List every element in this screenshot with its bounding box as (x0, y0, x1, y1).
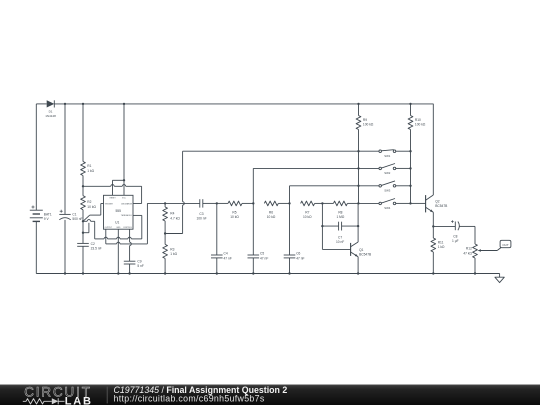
svg-text:R10: R10 (415, 118, 421, 122)
node C1 bottom (64, 272, 66, 274)
svg-text:DISCHARGE: DISCHARGE (121, 202, 132, 205)
node R11 bottom (432, 272, 434, 274)
wire battery negative lead (35, 221, 37, 273)
svg-text:23.5 nF: 23.5 nF (91, 246, 102, 250)
svg-text:THRESHOLD: THRESHOLD (121, 215, 133, 217)
resistor R4 4.7 kOhm (163, 203, 181, 233)
node Q1 collector junction (357, 202, 359, 204)
resistor R5 10 kOhm (217, 201, 254, 219)
op-amp U1 555 timer (104, 195, 134, 229)
svg-text:LAB: LAB (65, 396, 93, 405)
capacitor C9 5 nF (124, 260, 144, 274)
svg-text:C9: C9 (137, 260, 141, 264)
svg-text:CONTROL: CONTROL (123, 227, 132, 229)
svg-text:4.7 kΩ: 4.7 kΩ (170, 216, 180, 220)
switch SW4 (379, 199, 396, 211)
svg-text:5 nF: 5 nF (137, 264, 144, 268)
node C2 tap (82, 232, 84, 234)
node C7 left (321, 225, 323, 227)
wire bottom ground rail (36, 273, 499, 275)
capacitor C3 100 nF (196, 199, 216, 220)
footer title text (114, 385, 288, 404)
node C6 bottom (288, 272, 290, 274)
wire Q1 emitter (357, 257, 359, 274)
node R10 supply tap (409, 103, 411, 105)
wire R1-R2 junction to 555 DISCHARGE (83, 185, 142, 204)
node C4 top (216, 202, 218, 204)
wire battery positive lead (35, 104, 37, 210)
svg-text:http://circuitlab.com/c69nh5uf: http://circuitlab.com/c69nh5ufw5b7s (114, 394, 265, 404)
svg-text:R5: R5 (232, 210, 236, 214)
node R10 column SW3 (409, 185, 411, 187)
capacitor C6 47 nF (284, 203, 305, 273)
node R9 column SW1 (357, 150, 359, 152)
wire Q2 emitter (432, 212, 434, 226)
footer separator (106, 387, 108, 404)
wire Q1 collector (357, 203, 359, 242)
svg-text:100 nF: 100 nF (196, 217, 206, 221)
svg-text:C2: C2 (91, 242, 95, 246)
svg-text:C7: C7 (338, 236, 342, 240)
transistor Q1 BC547B (351, 242, 372, 257)
capacitor C1 500 nF (59, 104, 82, 274)
capacitor C4 47 nF (211, 203, 232, 273)
wire 555 GND to rail (117, 229, 119, 273)
node Q2 emitter (432, 225, 434, 227)
svg-text:R11: R11 (438, 241, 444, 245)
wire C2 tap jog (83, 223, 89, 233)
node R12 bottom (474, 272, 476, 274)
svg-text:BC547B: BC547B (359, 252, 371, 256)
svg-text:SW2: SW2 (384, 171, 391, 175)
node R10 column SW1 (409, 150, 411, 152)
svg-text:10 kΩ: 10 kΩ (303, 215, 312, 219)
wire SW4 right (396, 202, 411, 204)
node VCC-RESET tie (123, 179, 125, 181)
resistor R10 100 kOhm (408, 104, 426, 203)
potentiometer R12 47 kOhm (463, 226, 501, 273)
node R3 bottom (164, 272, 166, 274)
svg-text:1 kΩ: 1 kΩ (87, 169, 94, 173)
node Q1 emitter at rail (357, 272, 359, 274)
resistor R7 10 kOhm (301, 201, 323, 219)
svg-text:1 MΩ: 1 MΩ (336, 215, 344, 219)
wire SW2 right (396, 167, 411, 169)
svg-text:R9: R9 (363, 118, 367, 122)
svg-text:R4: R4 (170, 212, 174, 216)
node C5 top (252, 202, 254, 204)
svg-text:C3: C3 (199, 212, 203, 216)
svg-text:C1: C1 (72, 213, 76, 217)
svg-text:10 kΩ: 10 kΩ (230, 215, 239, 219)
node 555 GND at rail (117, 272, 119, 274)
resistor R1 1 kOhm (81, 104, 95, 186)
svg-text:100 kΩ: 100 kΩ (415, 123, 426, 127)
svg-text:C5: C5 (260, 252, 264, 256)
resistor R6 10 kOhm (264, 201, 289, 219)
svg-text:R2: R2 (87, 200, 91, 204)
svg-text:SW3: SW3 (384, 189, 391, 193)
wire supply to 555 VCC (123, 104, 125, 195)
node C5 bottom (252, 272, 254, 274)
svg-text:1 kΩ: 1 kΩ (438, 245, 445, 249)
svg-text:SW1: SW1 (384, 154, 391, 158)
wire C5 tap to SW2 (253, 168, 379, 203)
svg-text:U1: U1 (115, 220, 119, 224)
svg-text:1 µF: 1 µF (452, 239, 459, 243)
node R9 supply tap (357, 103, 359, 105)
svg-text:R7: R7 (305, 210, 309, 214)
svg-text:SW4: SW4 (384, 206, 391, 210)
svg-text:C8: C8 (453, 235, 457, 239)
svg-text:Q1: Q1 (359, 248, 364, 252)
footer CircuitLab logo (23, 385, 93, 405)
wire 555 OUTPUT to chain (106, 203, 148, 244)
wire Q1 base column (322, 203, 350, 249)
node trigger junction (82, 220, 84, 222)
resistor R8 1 MOhm (322, 201, 358, 219)
wire Q2 collector to rail (432, 104, 434, 195)
battery BAT1 9V (30, 206, 52, 222)
wire chain from output riser to C3 (147, 202, 199, 204)
svg-text:BAT1: BAT1 (44, 212, 52, 216)
node C7 right (357, 225, 359, 227)
wire SW4 left (358, 202, 379, 204)
svg-text:1N4148: 1N4148 (45, 114, 56, 118)
wire divider tap to SW1 (165, 151, 379, 233)
capacitor C7 10 nF (322, 222, 358, 245)
svg-text:R8: R8 (338, 210, 342, 214)
wire Q2 base (411, 202, 426, 204)
svg-text:R6: R6 (269, 210, 273, 214)
svg-text:GND: GND (116, 227, 121, 229)
svg-text:47 kΩ: 47 kΩ (463, 251, 472, 255)
resistor R11 1 kOhm (431, 226, 445, 273)
svg-text:C4: C4 (224, 252, 228, 256)
node Q1 base column top (321, 202, 323, 204)
node supply VCC tap (123, 103, 125, 105)
switch SW1 (379, 150, 396, 158)
svg-text:R12: R12 (466, 247, 472, 251)
wire 555 TRIGGER to divider node (83, 204, 104, 222)
node R10 column SW4 (409, 202, 411, 204)
svg-text:BC547B: BC547B (435, 204, 447, 208)
svg-text:10 kΩ: 10 kΩ (267, 215, 276, 219)
node R4 top (164, 202, 166, 204)
node R9 column SW2 (357, 167, 359, 169)
svg-text:555: 555 (115, 209, 121, 213)
resistor R2 10 kOhm (81, 186, 97, 221)
svg-text:10 kΩ: 10 kΩ (87, 205, 96, 209)
footer bar (0, 385, 540, 405)
svg-text:RESET: RESET (110, 198, 117, 200)
svg-text:OUTPUT: OUTPUT (105, 227, 113, 229)
resistor R3 1 kOhm (163, 234, 178, 274)
svg-text:100 kΩ: 100 kΩ (363, 123, 374, 127)
svg-text:C6: C6 (296, 252, 300, 256)
wire RESET tie (113, 180, 125, 195)
svg-text:1 kΩ: 1 kΩ (170, 252, 177, 256)
switch SW2 (379, 164, 396, 176)
wire trigger node over to threshold drop (83, 220, 95, 239)
node R10 column SW2 (409, 167, 411, 169)
wire top supply rail (36, 103, 433, 105)
node R9 column SW3 (357, 185, 359, 187)
wire SW3 right (396, 185, 411, 187)
svg-text:Q2: Q2 (435, 200, 440, 204)
svg-text:47 nF: 47 nF (296, 256, 304, 260)
transistor Q2 BC547B (426, 195, 448, 212)
node C4 bottom (216, 272, 218, 274)
svg-text:OUT: OUT (502, 243, 509, 247)
node OUT flag (500, 240, 511, 247)
node R1 top (82, 103, 84, 105)
node C2 bottom (82, 272, 84, 274)
capacitor C8 1 uF (433, 220, 475, 243)
wire SW1 right (396, 150, 411, 152)
svg-text:TRIGGER: TRIGGER (105, 203, 114, 205)
wire 555 THRESHOLD loop (95, 215, 142, 239)
node C9 bottom (128, 272, 130, 274)
svg-text:500 nF: 500 nF (72, 217, 82, 221)
ground (495, 274, 504, 283)
capacitor C5 47 nF (248, 203, 269, 273)
diode D1 1N4148 (45, 100, 56, 118)
svg-text:47 nF: 47 nF (224, 256, 232, 260)
svg-text:47 nF: 47 nF (260, 256, 268, 260)
wire 555 CONTROL to C9 (130, 229, 132, 261)
svg-text:9 V: 9 V (44, 217, 50, 221)
node C1 top (64, 103, 66, 105)
svg-text:10 nF: 10 nF (336, 240, 344, 244)
svg-text:R3: R3 (170, 247, 174, 251)
wire C6 tap to SW3 (290, 186, 379, 204)
resistor R9 100 kOhm (356, 104, 374, 203)
switch SW3 (379, 181, 396, 193)
svg-text:R1: R1 (87, 164, 91, 168)
capacitor C2 23.5 nF (77, 221, 101, 273)
node C6 top (288, 202, 290, 204)
node R4-R3 junction (164, 232, 166, 234)
node R1-R2 junction (82, 185, 84, 187)
